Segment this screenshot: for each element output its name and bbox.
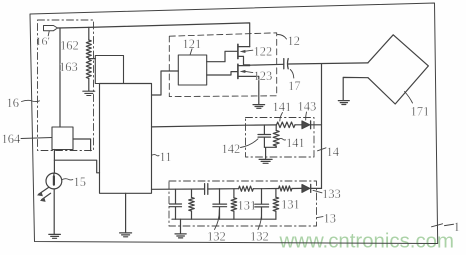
resistor R163: [86, 60, 91, 91]
capacitor C13s (series): [205, 184, 220, 195]
label 164 leader: [21, 138, 52, 139]
wire and resistor R131s2 (series): [262, 186, 303, 191]
svg-text:17: 17: [288, 79, 301, 93]
label 123 leader arrow: [240, 70, 253, 73]
resistor R162: [86, 27, 91, 58]
wire U11 to filter 14: [152, 125, 246, 127]
transducer 171 (diamond): [368, 35, 428, 104]
svg-text:171: 171: [411, 105, 430, 119]
wire and resistor R131s1 (series): [220, 186, 262, 191]
svg-text:142: 142: [222, 142, 241, 156]
label 12 leader: [278, 35, 287, 40]
transistor Q122: [238, 44, 250, 65]
label 15 leader: [62, 179, 73, 180]
component 16' (tag): [44, 26, 58, 31]
power rail wire from 16' to Q122 drain: [58, 23, 250, 47]
svg-text:14: 14: [327, 145, 340, 159]
resistor R141 (shunt): [273, 125, 279, 148]
svg-text:141: 141: [286, 136, 305, 150]
label 171 leader: [405, 92, 413, 104]
svg-text:1: 1: [454, 219, 461, 234]
wire 171 lower lead to ground: [343, 77, 368, 100]
resistor R13a (shunt): [189, 189, 195, 219]
dash-dot box 13: [169, 181, 317, 226]
wire node to U11 left edge: [54, 160, 99, 173]
ground below Q123: [253, 105, 265, 109]
label 14 leader: [318, 148, 327, 151]
wire U121 to Q123 gate: [207, 72, 238, 75]
capacitor C17: [284, 59, 288, 69]
ground below D15: [49, 234, 61, 238]
svg-text:162: 162: [60, 39, 79, 53]
resistor R141 (series): [277, 122, 296, 128]
block 164: [52, 127, 73, 150]
label 133 leader: [313, 190, 322, 193]
svg-text:164: 164: [2, 132, 22, 146]
svg-text:133: 133: [322, 187, 341, 201]
wire rail to ground 13: [180, 219, 182, 233]
svg-text:12: 12: [288, 34, 301, 48]
transistor Q123: [238, 64, 259, 104]
wire 16' tag down to box 164: [59, 28, 61, 127]
resistor R131a (shunt): [231, 189, 237, 219]
wire R162/R163 junction to box: [89, 58, 96, 60]
capacitor C132b (shunt): [255, 189, 269, 220]
dash-dot box 14: [246, 118, 315, 158]
label 1 leader: [432, 224, 454, 227]
diode D143: [302, 121, 322, 129]
bottom rail of box 13: [172, 218, 276, 220]
svg-text:122: 122: [254, 45, 273, 59]
dash-dot box 16: [38, 20, 94, 151]
wire Q123 output to capacitor 17: [244, 63, 284, 66]
block on top of U11: [95, 56, 123, 84]
label 143 leader: [305, 112, 308, 120]
ground below U11: [120, 233, 132, 237]
wire R141 to D143: [295, 124, 302, 126]
capacitor C13a (shunt): [170, 189, 182, 219]
svg-text:16: 16: [7, 96, 20, 110]
label 122 leader arrow: [240, 50, 253, 53]
capacitor C132a (shunt): [213, 189, 227, 219]
svg-text:132: 132: [250, 230, 269, 244]
dashed box 12: [169, 33, 276, 97]
svg-text:143: 143: [298, 100, 317, 114]
label 11 leader: [152, 155, 160, 156]
wire U11 to U121 input: [152, 71, 179, 95]
diode D133: [302, 184, 322, 192]
label 142 leader: [241, 139, 259, 148]
wire C142/R141 bottoms to ground: [264, 147, 276, 159]
svg-text:11: 11: [160, 150, 172, 164]
ground below box 14: [259, 159, 272, 163]
svg-text:163: 163: [59, 60, 78, 74]
resistor R131b (shunt): [273, 189, 279, 220]
wire junction down right-side bus: [321, 64, 323, 189]
wire D15 to ground: [53, 189, 55, 234]
svg-text:141: 141: [273, 100, 292, 114]
wire C17 to transducer 171: [288, 63, 368, 64]
label 16' leader: [48, 31, 49, 36]
label 141 right leader: [279, 138, 286, 140]
svg-text:15: 15: [74, 175, 87, 189]
ground for 171: [338, 101, 349, 105]
label 17 leader: [290, 70, 294, 79]
svg-text:131: 131: [281, 198, 300, 212]
svg-text:132: 132: [207, 230, 226, 244]
label 132 right leader: [258, 210, 262, 230]
svg-text:13: 13: [324, 212, 337, 226]
photodiode D15: [37, 173, 62, 202]
label 121 leader: [190, 49, 192, 55]
wire 164 right stub: [73, 139, 91, 151]
ground below R163: [83, 91, 95, 95]
ground below box 13: [175, 234, 186, 238]
capacitor C142: [258, 125, 271, 147]
label 141 top leader: [280, 113, 283, 122]
wire U121 to Q122 gate: [207, 51, 238, 61]
block U121: [178, 55, 206, 85]
svg-text:www.cntronics.com: www.cntronics.com: [279, 231, 455, 253]
wire U11 bottom to ground: [125, 193, 127, 232]
IC U11: [100, 84, 152, 194]
svg-text:131: 131: [238, 199, 257, 213]
svg-text:123: 123: [254, 69, 273, 83]
wire U11 to filter 13: [152, 188, 205, 190]
label 132 left leader: [215, 210, 220, 230]
wire into box 14: [246, 124, 277, 126]
wire 164 to photodiode node: [53, 150, 55, 173]
svg-text:16′: 16′: [36, 34, 51, 48]
label 13 leader: [317, 217, 323, 218]
label 16 leader: [22, 100, 40, 101]
